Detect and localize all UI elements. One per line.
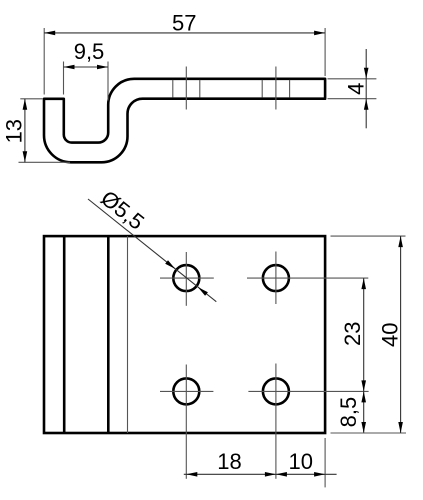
hole 1 centerline (185, 67, 187, 110)
dimension 57 (44, 10, 325, 94)
hole 2 edge lines (side view) (261, 80, 263, 98)
svg-text:13: 13 (2, 119, 27, 143)
svg-text:10: 10 (288, 449, 312, 474)
bend line 1 (inner left of hook) (63, 236, 66, 433)
svg-text:4: 4 (343, 83, 368, 95)
svg-text:40: 40 (377, 323, 402, 347)
dimension 9,5 (64, 39, 109, 101)
bend tangent line (thin) (127, 236, 129, 433)
dimension 18 and 10 (184, 438, 337, 487)
bend line 2 (inner right of hook) (107, 236, 110, 433)
hole top-left (173, 265, 199, 291)
hole bottom-right (263, 378, 289, 404)
dimension 8,5 (336, 391, 366, 433)
svg-text:23: 23 (340, 322, 365, 346)
hole 1 edge lines (side view) (172, 80, 174, 98)
svg-text:57: 57 (172, 10, 196, 35)
dimension 23 (340, 278, 366, 433)
hole 2 centerline (275, 67, 277, 110)
hole top-right (263, 265, 289, 291)
dimension 4 (328, 49, 377, 128)
plate outline (44, 236, 325, 433)
dimension 40 (331, 236, 407, 433)
part outline side view (44, 79, 325, 163)
svg-text:18: 18 (217, 449, 241, 474)
svg-text:9,5: 9,5 (74, 39, 105, 64)
hole bottom-left (173, 378, 199, 404)
svg-text:8,5: 8,5 (336, 397, 361, 428)
dimension 13 (2, 99, 71, 163)
leader dimension Ø5,5 (88, 185, 216, 301)
